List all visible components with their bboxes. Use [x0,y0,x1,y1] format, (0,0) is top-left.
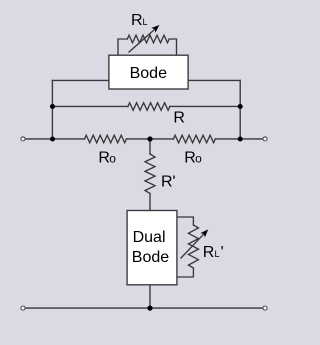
resistor RL' zigzag [188,225,198,268]
svg-text:R: R [203,244,215,261]
wire R row right [170,105,240,107]
wire Dual Bode to RL' bottom [177,268,193,277]
svg-text:o: o [109,152,116,166]
wire R' to Dual Bode box [149,194,151,211]
svg-text:Bode: Bode [130,65,167,82]
terminal bottom left [21,306,25,310]
svg-text:R: R [131,12,143,29]
svg-text:L: L [215,249,220,259]
wire left rail [51,80,53,139]
junction dot right rail / R0 row [238,136,243,141]
wire Dual Bode to RL' top [177,217,193,225]
block Dual Bode [127,211,177,285]
wire Bode row right [188,79,240,81]
label RL' [203,244,224,261]
svg-text:': ' [221,244,224,261]
arrow shaft of variable resistor RL' [181,234,204,258]
label R0 right [184,150,202,167]
terminal output right [263,137,267,141]
wire bottom row [26,307,264,309]
label R0 left [98,150,116,167]
wire R0 right to output terminal [215,138,263,140]
arrow shaft of variable resistor RL [129,29,155,52]
terminal input left [21,137,25,141]
wire Dual Bode bottom to ground row [149,285,151,308]
junction dot left rail / R0 row [50,136,55,141]
wire RL loop left vertical [118,39,127,55]
svg-text:Bode: Bode [132,249,169,266]
svg-text:L: L [143,17,148,27]
junction node B (center, R0/R0/R') [147,136,152,141]
wire right rail [239,80,241,139]
wire node B to R' [149,139,151,154]
label RL [131,12,148,29]
junction dot bottom row [147,306,152,311]
wire node B to R0 left [126,138,173,140]
arrowhead of variable resistor RL [151,25,159,33]
terminal bottom right [263,306,267,310]
junction dot left rail / R row [50,104,55,109]
resistor RL zigzag [127,35,169,43]
wire input terminal to node A [26,138,85,140]
wire Bode row left [52,79,109,81]
svg-text:R: R [98,150,110,167]
wire R row left [52,105,128,107]
wire RL loop right vertical [169,39,176,55]
resistor R0 right zigzag [173,135,215,143]
svg-text:o: o [195,152,202,166]
arrowhead of variable resistor RL' [200,229,208,237]
block Bode [109,55,188,89]
resistor R zigzag [128,103,170,111]
svg-text:Dual: Dual [133,229,166,246]
resistor R0 left zigzag [85,135,127,143]
svg-text:R': R' [161,174,176,191]
resistor R' zigzag [145,154,155,194]
svg-text:R: R [173,109,185,126]
junction dot right rail / R row [238,104,243,109]
